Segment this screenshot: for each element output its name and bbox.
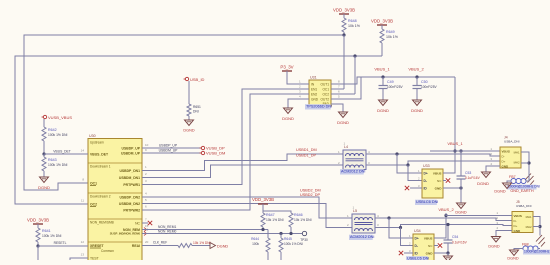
junction R645/NON_REM0: [279, 232, 282, 235]
svg-text:D-: D-: [415, 244, 418, 248]
U31 OC pin stubs right: [331, 89, 355, 94]
wire ESD2 D+ tap: [389, 218, 413, 238]
svg-text:L4: L4: [344, 145, 348, 149]
wire D+ port2: [375, 225, 512, 228]
ferrite bead FB7: [507, 174, 529, 184]
resistor R647: [261, 213, 284, 230]
part label ACM2012 DNI (L5): [349, 235, 374, 240]
wire USBDP_DN1 to choke L4: [142, 154, 343, 171]
pin direction arrows NON_REM: [144, 228, 147, 236]
svg-text:VBUS_2: VBUS_2: [408, 67, 424, 72]
U33 ID pin stub: [410, 187, 422, 189]
wire RESETL down: [37, 246, 39, 260]
svg-text:USBD2_DP: USBD2_DP: [300, 193, 321, 197]
svg-text:PRTPWR1: PRTPWR1: [123, 183, 140, 187]
resistor R646: [289, 213, 312, 234]
wire VBUS_DET to hub pin 14: [44, 150, 88, 155]
svg-text:VBUS: VBUS: [514, 214, 522, 218]
J5 pin numbers: [496, 211, 498, 230]
wire VBUS_2 to J5 pin1: [446, 213, 500, 216]
svg-text:XRESET: XRESET: [90, 244, 104, 248]
off-page connector VUSB_DP: [200, 146, 225, 151]
svg-text:100k 1% DNI: 100k 1% DNI: [284, 242, 303, 246]
svg-text:OC2: OC2: [322, 93, 329, 97]
net label USBDP_UP: [159, 144, 178, 148]
wire R650 to DGND port: [192, 245, 210, 247]
svg-text:100k 1% DNI: 100k 1% DNI: [42, 234, 62, 238]
hub section titles: [90, 141, 114, 254]
svg-text:USB_ID: USB_ID: [190, 77, 205, 82]
wire USBDM_DN2 to choke L5: [142, 204, 352, 228]
junction C54 bottom: [446, 251, 449, 254]
svg-text:VBUS_1: VBUS_1: [447, 141, 463, 146]
wire net OCS2 (hub OC2 to pull-up R649): [15, 56, 382, 204]
power VDD_3V3B (pull-up R648): [333, 8, 355, 19]
svg-text:GND: GND: [435, 187, 443, 191]
svg-text:TPS2066D DNI: TPS2066D DNI: [306, 105, 332, 109]
wire D- port1: [366, 154, 500, 156]
esd protection U33: [418, 164, 443, 198]
junction ESD2 D+ tap: [387, 216, 390, 219]
power VDD_3V3B (pull-up R649): [371, 19, 393, 30]
wire U31 PAD to ground: [331, 104, 343, 112]
junction VBUS_2 port: [444, 214, 447, 217]
net label VBUS_1 (port): [447, 141, 463, 146]
junction VBUS_1 cap: [381, 75, 384, 78]
svg-text:GND: GND: [514, 229, 522, 233]
svg-text:DGND: DGND: [477, 181, 489, 186]
svg-text:DGND: DGND: [217, 244, 228, 248]
wire NON_REM0: [142, 233, 302, 235]
wire U31 OUT1 to VBUS rail: [331, 77, 455, 84]
capacitor C50: [413, 77, 438, 100]
svg-text:REAI: REAI: [132, 244, 140, 248]
svg-text:C53: C53: [465, 171, 471, 175]
off-page connector VUSB_DM: [200, 151, 226, 156]
svg-text:VBUS_DET: VBUS_DET: [90, 153, 109, 157]
junction R647/NON_REM1: [261, 228, 264, 231]
svg-text:SUSP_IND/NON_REM0: SUSP_IND/NON_REM0: [110, 232, 141, 236]
svg-text:U33: U33: [423, 164, 430, 168]
svg-text:NON_REM0: NON_REM0: [158, 230, 176, 234]
junction ESD2 D- tap: [399, 226, 402, 229]
part label USBLC6 DNI (U34): [406, 256, 429, 261]
svg-text:USBDM_UP: USBDM_UP: [159, 149, 179, 153]
svg-text:GND_EARTH: GND_EARTH: [510, 189, 534, 193]
svg-text:R644: R644: [251, 237, 259, 241]
junction R646/NON_REM0: [289, 232, 292, 235]
power VDD_3V3B (reset pull-up): [27, 218, 49, 229]
svg-text:DGND: DGND: [494, 190, 505, 194]
svg-text:10k 1% DNI: 10k 1% DNI: [294, 218, 312, 222]
wire REAI: [142, 241, 178, 246]
wire strap pull-up rail: [263, 211, 291, 213]
wire NON_REM1: [142, 229, 268, 231]
net label USBDM_UP: [159, 149, 179, 153]
resistor R651 (USB_ID): [187, 104, 201, 120]
net label VBUS_2 (port): [438, 207, 454, 212]
ground DGND (U31 GND): [282, 108, 294, 121]
svg-text:100k 1% DNI: 100k 1% DNI: [48, 133, 68, 137]
svg-text:USBDM_UP: USBDM_UP: [121, 152, 141, 156]
svg-text:DGND: DGND: [183, 129, 194, 133]
wire ESD1 D- tap: [408, 165, 422, 181]
wire TEST pin: [70, 258, 88, 260]
wire J4 MH2: [521, 162, 529, 164]
svg-text:D+: D+: [424, 172, 428, 176]
svg-text:USBD2_DM: USBD2_DM: [300, 189, 321, 193]
svg-text:VBUS: VBUS: [424, 237, 433, 241]
svg-text:NC: NC: [428, 244, 433, 248]
svg-text:VBUS: VBUS: [433, 172, 442, 176]
svg-text:TEST: TEST: [90, 257, 99, 261]
svg-text:OC1: OC1: [322, 88, 329, 92]
svg-text:MH2: MH2: [526, 225, 532, 229]
net label USBD1_DM: [296, 148, 317, 152]
junction VBUS_1 port: [453, 149, 456, 152]
svg-text:NON_REM/SMB: NON_REM/SMB: [90, 221, 114, 225]
svg-text:USBA_DNI: USBA_DNI: [516, 204, 532, 208]
resistor R643: [42, 154, 68, 177]
svg-text:D-: D-: [514, 219, 517, 223]
hub right pin names: [110, 147, 141, 249]
svg-text:USBDM_DN2: USBDM_DN2: [119, 202, 140, 206]
wire PRTPWR2 to U31 EN2: [142, 94, 309, 210]
wire U33 GND to cap bottom: [443, 187, 461, 189]
svg-text:U34: U34: [414, 229, 421, 233]
ground DGND (J4): [477, 172, 490, 186]
svg-text:USBD1_DM: USBD1_DM: [296, 148, 317, 152]
no-connect U33 NC: [446, 178, 450, 182]
svg-text:USBD1_DP: USBD1_DP: [296, 154, 317, 158]
ferrite bead FB8: [514, 243, 540, 252]
svg-text:VUSB_VBUS: VUSB_VBUS: [48, 115, 72, 120]
ground port DGND (REAI): [210, 243, 228, 249]
svg-text:0.1uF/16V: 0.1uF/16V: [465, 176, 481, 180]
svg-text:USBLC6 DNI: USBLC6 DNI: [416, 200, 438, 204]
svg-text:NON_REM1: NON_REM1: [158, 225, 176, 229]
net label GND_EARTH (port1): [510, 189, 534, 193]
svg-text:14: 14: [81, 149, 85, 153]
wire U31 GND pin: [288, 99, 297, 108]
svg-text:U31: U31: [310, 76, 317, 80]
svg-text:USBA_DNI: USBA_DNI: [504, 140, 520, 144]
svg-text:VBUS_2: VBUS_2: [438, 207, 454, 212]
hub left pin names: [90, 153, 109, 261]
svg-text:DGND: DGND: [377, 108, 389, 113]
svg-text:R642: R642: [48, 128, 57, 132]
svg-text:C50: C50: [421, 80, 428, 84]
svg-text:EN2: EN2: [311, 93, 317, 97]
wire U34 GND to cap bottom: [434, 252, 448, 254]
svg-text:100k: 100k: [252, 242, 259, 246]
junction J5 shield: [538, 225, 541, 228]
junction OCS2: [353, 54, 356, 57]
wire U34 VBUS: [434, 216, 446, 239]
svg-text:U30: U30: [89, 134, 96, 138]
wire D- port2: [375, 218, 512, 221]
svg-text:D+: D+: [514, 224, 518, 228]
ground DGND (J5): [488, 237, 500, 249]
junction OCS1: [342, 33, 345, 36]
ground DGND (U31 PAD): [337, 112, 349, 125]
svg-text:C54: C54: [452, 235, 458, 239]
svg-text:CLK_REF: CLK_REF: [153, 241, 167, 245]
svg-text:VDD_3V3B: VDD_3V3B: [333, 8, 355, 13]
junction ESD1 D+ tap: [395, 152, 398, 155]
svg-text:MH1: MH1: [526, 215, 532, 219]
L5 pin numbers: [347, 214, 379, 227]
test point TP30: [300, 231, 308, 242]
U31 pin names: [311, 83, 330, 107]
svg-text:20: 20: [145, 240, 149, 244]
svg-text:DGND: DGND: [507, 257, 518, 261]
hub section dividers: [88, 163, 142, 242]
svg-text:NC: NC: [135, 222, 140, 226]
svg-text:Downstream 2: Downstream 2: [90, 195, 111, 199]
svg-text:100nF/25V: 100nF/25V: [387, 85, 403, 89]
junction C53 top: [459, 149, 462, 152]
wire VBUS_1 to J4 pin1: [430, 150, 500, 152]
earth ground (J4 shield): [525, 174, 534, 186]
svg-text:D+: D+: [502, 159, 506, 163]
svg-text:VBUS_1: VBUS_1: [374, 67, 390, 72]
part label TPS2066D DNI: [305, 104, 332, 109]
svg-text:USBDP_UP: USBDP_UP: [122, 147, 141, 151]
svg-text:1000R@100MHz DNI: 1000R@100MHz DNI: [508, 185, 540, 189]
L4 pin numbers: [338, 150, 370, 165]
svg-text:10k 1% DNI: 10k 1% DNI: [193, 241, 211, 245]
svg-text:D-: D-: [424, 179, 427, 183]
hub pin numbers: [81, 143, 149, 257]
power VDD_3V3B (strap pull-ups): [252, 197, 274, 211]
svg-text:USBLC6 DNI: USBLC6 DNI: [407, 257, 429, 261]
wire PRTPWR1 to U31 EN1: [142, 89, 309, 185]
net label VBUS_1: [374, 67, 390, 72]
svg-text:10: 10: [145, 143, 149, 147]
wire D+ port1: [366, 161, 500, 165]
svg-text:VDD_3V3B: VDD_3V3B: [27, 218, 49, 223]
svg-text:R645: R645: [284, 237, 292, 241]
ground DGND (U34): [444, 253, 453, 262]
junction ESD1 D- tap: [406, 163, 409, 166]
junction VBUS_DET: [42, 152, 45, 155]
svg-text:NC: NC: [437, 179, 442, 183]
svg-text:ACM2012 DNI: ACM2012 DNI: [341, 170, 365, 174]
svg-text:VUSB_DM: VUSB_DM: [206, 151, 225, 156]
svg-text:D+: D+: [415, 237, 419, 241]
svg-text:0.1uF/16V: 0.1uF/16V: [452, 241, 468, 245]
power P3_3V: [280, 65, 297, 85]
svg-text:GND: GND: [311, 98, 319, 102]
junction VBUS_2 cap: [415, 75, 418, 78]
part label USBLC6 DNI (U33): [415, 200, 438, 205]
off-page connector VUSB_VBUS: [42, 115, 73, 120]
capacitor C49: [379, 77, 404, 100]
svg-text:VDD_3V3B: VDD_3V3B: [252, 197, 274, 202]
svg-text:10k 1% DNI: 10k 1% DNI: [266, 218, 284, 222]
wire ESD1 D+ tap: [397, 154, 422, 173]
resistor R649: [380, 29, 399, 56]
junction RESETL: [36, 244, 39, 247]
common-mode choke L5: [352, 206, 375, 234]
wire net OCS1 (hub OC1 to pull-up R648): [24, 35, 344, 190]
svg-text:MH1: MH1: [514, 151, 520, 155]
part label ACM2012 DNI (L4): [340, 169, 365, 174]
wire USBDM_DN1 to choke L4: [142, 165, 343, 178]
svg-text:R649: R649: [386, 30, 395, 34]
ground DGND (FB7): [494, 183, 511, 194]
svg-text:R641: R641: [42, 229, 51, 233]
svg-text:DGND: DGND: [488, 245, 499, 249]
usb hub U30: [88, 134, 142, 261]
svg-text:100k 1% DNI: 100k 1% DNI: [48, 163, 68, 167]
svg-text:DGND: DGND: [38, 185, 50, 190]
svg-text:10k 1%: 10k 1%: [348, 24, 361, 28]
resistor R642: [42, 127, 68, 154]
esd protection U34: [409, 229, 434, 263]
svg-text:12: 12: [81, 240, 85, 244]
svg-text:L5: L5: [353, 209, 357, 213]
svg-text:USBDP_DN2: USBDP_DN2: [119, 196, 140, 200]
svg-text:OUT2: OUT2: [320, 98, 329, 102]
svg-text:GND: GND: [502, 164, 510, 168]
no-connect U33 ID: [405, 186, 409, 190]
wire ESD2 D- tap: [401, 228, 414, 246]
svg-text:DGND: DGND: [411, 108, 423, 113]
svg-text:10k 1%: 10k 1%: [386, 35, 399, 39]
net label NON_REM1: [158, 225, 176, 229]
wire RESETL to hub XRESET: [38, 241, 88, 246]
svg-text:PRTPWR2: PRTPWR2: [123, 209, 140, 213]
wire J4 GND: [486, 166, 500, 172]
wire OCS1 down to U31: [343, 35, 345, 89]
junction J4 shield: [527, 161, 530, 164]
wire OCS2 down to U31: [354, 56, 356, 94]
no-connect U34 NC: [438, 243, 442, 247]
ground DGND (U33): [455, 188, 466, 215]
svg-text:DNI: DNI: [193, 110, 199, 114]
U31 pin stubs left: [242, 84, 309, 99]
resistor R648: [342, 18, 361, 35]
svg-text:R648: R648: [348, 19, 357, 23]
svg-text:USBDM_DN1: USBDM_DN1: [119, 176, 140, 180]
J4 pin numbers: [490, 147, 492, 166]
svg-text:OC2: OC2: [90, 203, 97, 207]
svg-text:ACM2012 DNI: ACM2012 DNI: [350, 235, 374, 239]
ground DGND (C50): [411, 100, 423, 113]
ground DGND (VBUS_DET divider): [38, 177, 50, 190]
common-mode choke L4: [343, 142, 366, 170]
svg-text:13: 13: [81, 253, 85, 257]
wire J5 shield: [533, 217, 540, 236]
svg-text:DGND: DGND: [455, 211, 466, 215]
wire J5 GND: [496, 231, 512, 237]
ground DGND (FB8): [507, 250, 518, 261]
net label USBD1_DP: [296, 154, 317, 158]
svg-text:Upstream: Upstream: [90, 141, 104, 145]
power switch U31: [309, 76, 331, 107]
capacitor C54: [444, 225, 468, 254]
svg-text:C49: C49: [387, 80, 394, 84]
net label VBUS_2: [408, 67, 424, 72]
svg-text:1000R@100MHz DNI: 1000R@100MHz DNI: [524, 250, 550, 254]
svg-text:D-: D-: [502, 154, 505, 158]
net label USBD2_DP: [300, 193, 321, 197]
svg-text:RESETL: RESETL: [54, 241, 67, 245]
no-connect U34 ID: [399, 251, 403, 255]
svg-text:OC1: OC1: [90, 182, 97, 186]
svg-text:R646: R646: [294, 213, 303, 217]
svg-text:DGND: DGND: [282, 116, 294, 121]
svg-text:R643: R643: [48, 158, 57, 162]
svg-text:USBDP_UP: USBDP_UP: [159, 144, 178, 148]
svg-text:11: 11: [81, 199, 84, 203]
wire USBDM_UP: [142, 152, 200, 154]
U33 NC pin stub: [443, 180, 446, 182]
svg-text:Common: Common: [101, 249, 114, 253]
svg-text:VBUS: VBUS: [502, 149, 510, 153]
U31 pin numbers: [299, 80, 340, 99]
net label NON_REM0: [158, 230, 176, 234]
wire J5 MH2: [533, 226, 540, 228]
wire USBDP_DN2 to choke L5: [142, 197, 352, 218]
wire J4 shield: [521, 152, 529, 174]
usb connector J4: [500, 136, 521, 169]
part label 1000R@100MHz DNI (FB7): [507, 185, 540, 190]
svg-text:Downstream 1: Downstream 1: [90, 165, 111, 169]
resistor R650 (REAI): [178, 241, 211, 247]
resistor R641: [36, 228, 62, 246]
resistor R645 (pull-down): [279, 234, 303, 261]
wire U31 OUT2 to VBUS rail: [331, 77, 361, 99]
svg-text:100nF/25V: 100nF/25V: [421, 85, 437, 89]
ground DGND (C49): [377, 100, 389, 113]
no-connect hub pin 7: [142, 221, 152, 225]
svg-text:VDD_3V3B: VDD_3V3B: [371, 19, 393, 24]
off-page connector USB_ID: [184, 77, 205, 82]
svg-text:P3_3V: P3_3V: [280, 65, 293, 70]
net label USBD2_DM: [300, 189, 321, 193]
resistor R644 (pull-down): [251, 230, 270, 261]
svg-text:R647: R647: [266, 213, 275, 217]
J5 pin1 stub: [500, 215, 512, 217]
svg-text:EN1: EN1: [311, 88, 317, 92]
part label 1000R@100MHz DNI (FB8): [523, 250, 550, 255]
svg-text:GND: GND: [426, 252, 434, 256]
svg-text:R651: R651: [193, 105, 201, 109]
U34 NC pin stub: [434, 245, 438, 247]
usb connector J5: [512, 200, 533, 233]
capacitor C53: [457, 151, 481, 188]
junction U33 GND: [459, 186, 462, 189]
svg-text:MH2: MH2: [514, 161, 520, 165]
svg-text:USBDP_DN1: USBDP_DN1: [119, 169, 140, 173]
wire U33 VBUS to VBUS_1: [443, 151, 455, 173]
junction C54 top: [446, 223, 449, 226]
wire VUSB_VBUS to R642: [43, 119, 45, 127]
wire USBDP_UP: [142, 147, 200, 149]
wire VBUS_1 down to port 1: [454, 77, 456, 151]
svg-text:OUT1: OUT1: [320, 83, 329, 87]
ground DGND (USB_ID): [183, 120, 194, 133]
wire USB_ID: [188, 81, 190, 104]
earth ground (J5 shield): [536, 235, 545, 247]
svg-text:VBUS_DET: VBUS_DET: [53, 150, 70, 154]
U34 ID pin stub: [404, 252, 413, 254]
svg-text:DGND: DGND: [337, 120, 349, 125]
